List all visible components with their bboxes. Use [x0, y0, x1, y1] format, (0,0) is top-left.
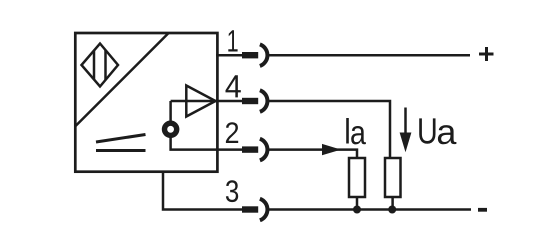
- lead RL2 bottom: [391, 197, 394, 210]
- Ia current arrow: [322, 144, 341, 155]
- connector socket pin2: [242, 139, 267, 161]
- connector socket pin4: [242, 90, 267, 112]
- junction dot RL1: [353, 206, 361, 214]
- label Ua: [419, 118, 435, 143]
- plus terminal: [479, 47, 494, 61]
- wire pin2 to resistor RL1: [268, 150, 358, 158]
- adjustment characteristic symbol: [96, 135, 146, 151]
- wire pin1 from box: [216, 54, 242, 57]
- minus terminal: [478, 208, 487, 212]
- wire pin3 to minus: [268, 208, 472, 211]
- label Ia: [346, 118, 349, 144]
- connector socket pin3: [242, 199, 267, 221]
- wire through op-amp to pin4: [171, 100, 218, 103]
- wire pin3 from box: [163, 171, 242, 210]
- wire pin4 to resistor RL2: [268, 101, 391, 158]
- wire pin4 from box: [216, 100, 242, 103]
- pin label 4: [225, 75, 240, 97]
- wire pin2 from box: [216, 148, 242, 151]
- Ua arrow: [400, 108, 412, 153]
- junction dot RL2: [388, 206, 396, 214]
- load resistor RL1: [349, 158, 365, 197]
- pin label 1: [228, 30, 237, 51]
- pin label 2: [226, 122, 238, 143]
- lead RL1 bottom: [356, 197, 359, 210]
- wire pin1 to plus: [268, 54, 471, 57]
- pin label 3: [226, 180, 238, 202]
- op-amp triangle: [186, 86, 215, 117]
- load resistor RL2: [385, 158, 401, 197]
- diagonal divider: [75, 33, 168, 126]
- sensor box U1: [75, 33, 217, 172]
- connector socket pin1: [242, 44, 267, 66]
- wire circle to pin2 line: [171, 138, 218, 150]
- wire stub to indicator circle: [169, 101, 172, 121]
- inductive sensor symbol: [82, 44, 119, 87]
- output indicator circle: [165, 123, 177, 135]
